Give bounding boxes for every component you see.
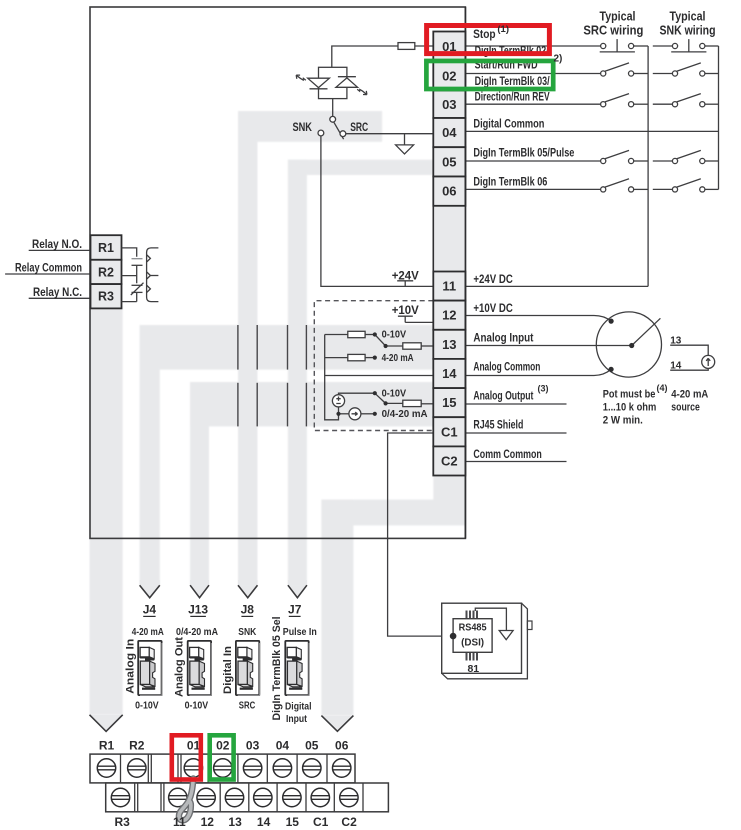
svg-text:SNK: SNK (292, 120, 312, 134)
svg-text:02: 02 (216, 739, 230, 753)
svg-text:(4): (4) (657, 383, 668, 393)
svg-text:06: 06 (335, 739, 349, 753)
svg-text:11: 11 (173, 815, 186, 829)
svg-text:J13: J13 (188, 603, 208, 617)
svg-text:Relay Common: Relay Common (15, 261, 82, 275)
svg-text:0/4-20 mA: 0/4-20 mA (382, 408, 428, 420)
svg-text:SRC: SRC (239, 700, 256, 712)
svg-text:J7: J7 (288, 603, 302, 617)
svg-text:R2: R2 (129, 739, 145, 753)
svg-text:0-10V: 0-10V (382, 388, 407, 400)
svg-text:14: 14 (257, 815, 271, 829)
svg-text:13: 13 (442, 337, 456, 352)
svg-text:C1: C1 (441, 424, 458, 439)
svg-text:81: 81 (467, 663, 479, 675)
svg-text:4-20 mA: 4-20 mA (382, 352, 414, 364)
svg-text:Analog In: Analog In (125, 638, 137, 693)
svg-text:13: 13 (670, 336, 682, 347)
svg-text:05: 05 (442, 154, 456, 169)
svg-text:02: 02 (442, 68, 456, 83)
svg-text:2 W min.: 2 W min. (603, 414, 643, 426)
svg-text:R2: R2 (98, 265, 114, 279)
svg-text:Digital Common: Digital Common (473, 117, 544, 131)
svg-text:0-10V: 0-10V (135, 700, 159, 712)
svg-text:R3: R3 (98, 290, 114, 304)
svg-text:R1: R1 (98, 241, 114, 255)
svg-text:SRC wiring: SRC wiring (583, 23, 643, 37)
svg-text:DigIn TermBlk 05 Sel: DigIn TermBlk 05 Sel (271, 617, 283, 721)
svg-text:12: 12 (442, 308, 456, 323)
svg-text:03: 03 (246, 739, 260, 753)
svg-text:Relay N.C.: Relay N.C. (33, 285, 82, 299)
svg-text:SRC: SRC (350, 120, 368, 134)
svg-text:1...10 k ohm: 1...10 k ohm (603, 401, 657, 413)
svg-text:Stop: Stop (473, 27, 496, 41)
svg-text:J8: J8 (241, 603, 255, 617)
svg-text:+10V: +10V (392, 303, 419, 317)
svg-text:0/4-20 mA: 0/4-20 mA (176, 626, 218, 638)
svg-text:(DSI): (DSI) (461, 637, 484, 649)
svg-text:DigIn TermBlk 03/: DigIn TermBlk 03/ (475, 74, 550, 88)
svg-text:Analog Common: Analog Common (473, 360, 540, 374)
svg-text:2): 2) (554, 54, 563, 65)
svg-text:12: 12 (201, 815, 215, 829)
svg-text:06: 06 (442, 184, 456, 199)
svg-text:RJ45 Shield: RJ45 Shield (473, 417, 523, 431)
svg-text:Analog Input: Analog Input (473, 331, 533, 345)
svg-text:0-10V: 0-10V (185, 700, 209, 712)
svg-text:0-10V: 0-10V (382, 329, 407, 341)
svg-text:03: 03 (442, 97, 456, 112)
svg-text:Pulse In: Pulse In (283, 626, 317, 638)
svg-text:4-20 mA: 4-20 mA (132, 626, 164, 638)
svg-text:Typical: Typical (600, 10, 636, 24)
svg-text:+24V: +24V (392, 268, 419, 282)
svg-text:RS485: RS485 (459, 622, 487, 634)
svg-text:Analog Output: Analog Output (473, 388, 533, 402)
svg-text:R3: R3 (115, 815, 131, 829)
svg-text:14: 14 (670, 361, 682, 372)
svg-text:14: 14 (442, 366, 457, 381)
svg-text:04: 04 (276, 739, 290, 753)
svg-text:Relay N.O.: Relay N.O. (32, 237, 82, 251)
svg-text:Digital: Digital (285, 701, 312, 713)
svg-text:DigIn TermBlk 06: DigIn TermBlk 06 (473, 175, 547, 189)
svg-text:+24V DC: +24V DC (473, 272, 513, 286)
svg-text:11: 11 (442, 279, 456, 294)
svg-text:13: 13 (228, 815, 242, 829)
svg-text:(3): (3) (538, 384, 549, 394)
svg-text:Typical: Typical (670, 10, 706, 24)
svg-text:05: 05 (305, 739, 319, 753)
svg-text:R1: R1 (99, 739, 115, 753)
svg-text:Direction/Run REV: Direction/Run REV (475, 89, 550, 103)
svg-text:04: 04 (442, 125, 457, 140)
svg-text:Analog Out: Analog Out (174, 637, 186, 697)
svg-text:source: source (671, 401, 700, 413)
svg-text:DigIn TermBlk 05/Pulse: DigIn TermBlk 05/Pulse (473, 146, 574, 160)
svg-text:15: 15 (442, 395, 456, 410)
svg-text:15: 15 (286, 815, 300, 829)
svg-text:+10V DC: +10V DC (473, 301, 513, 315)
svg-text:Comm Common: Comm Common (473, 447, 541, 461)
svg-text:C2: C2 (341, 815, 357, 829)
svg-text:Pot must be: Pot must be (603, 388, 656, 400)
svg-text:J4: J4 (143, 603, 157, 617)
svg-text:SNK wiring: SNK wiring (660, 23, 716, 37)
svg-text:01: 01 (187, 739, 201, 753)
svg-text:C2: C2 (441, 453, 458, 468)
svg-text:C1: C1 (313, 815, 329, 829)
svg-text:4-20 mA: 4-20 mA (671, 388, 708, 400)
svg-text:(1): (1) (497, 24, 509, 35)
svg-text:Digital In: Digital In (222, 646, 234, 694)
svg-text:Input: Input (286, 713, 307, 725)
svg-text:SNK: SNK (238, 626, 256, 638)
